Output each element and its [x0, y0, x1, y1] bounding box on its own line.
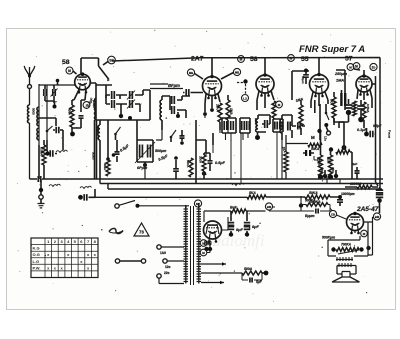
power transformer T1	[184, 206, 202, 285]
svg-text:0.5μF: 0.5μF	[215, 161, 226, 165]
label 2A5-47	[356, 206, 379, 213]
label 1MA V4	[295, 97, 304, 103]
wire dashes V3	[237, 83, 246, 95]
capacitor C24 dark	[303, 150, 314, 156]
tube V6 80	[204, 221, 222, 243]
label right rot	[388, 130, 392, 139]
node dot gang bottom	[143, 162, 147, 167]
capacitor C4 V1k	[73, 116, 84, 128]
svg-text:25K: 25K	[331, 167, 335, 172]
svg-text:2o: 2o	[372, 65, 376, 69]
resistor R19 filter	[231, 209, 246, 213]
svg-text:L2: L2	[243, 96, 247, 100]
phono link	[115, 259, 145, 263]
resistor R10 1M	[299, 100, 303, 135]
svg-text:50KA: 50KA	[309, 191, 318, 195]
wire left tuner top	[39, 84, 74, 86]
svg-text:0.5MA: 0.5MA	[40, 147, 44, 155]
wire V1 cathode drops	[72, 90, 86, 113]
svg-text:M: M	[240, 57, 243, 61]
node dot 80	[204, 247, 208, 251]
label Bak	[230, 206, 238, 210]
wire IF1 bottom	[96, 119, 150, 121]
coil L3 left	[37, 128, 39, 140]
label 1MA V5	[336, 79, 344, 83]
resistor R7 200	[199, 155, 207, 171]
svg-text:25KA: 25KA	[216, 104, 220, 111]
capacitor C6 IF1	[106, 95, 122, 108]
capacitor C17 IF2b	[242, 121, 245, 130]
wire V3 bottom	[257, 100, 274, 119]
node dot tuner junction	[45, 101, 57, 109]
resistor R17 50K rail	[305, 191, 330, 199]
switch S1 left	[46, 126, 53, 132]
resistor R20 hum	[242, 271, 268, 276]
trimmer C8 IF1	[122, 100, 140, 109]
capacitor C31 elec	[376, 187, 383, 213]
coil L8	[280, 119, 282, 133]
resistor R4 50K	[186, 158, 193, 177]
capacitor C25 V5	[339, 99, 353, 128]
node M circ b	[200, 249, 207, 256]
capacitor C29 rail	[78, 189, 95, 201]
resistor R13	[326, 155, 333, 180]
wire V3 plate up	[264, 58, 266, 75]
node G circle V1	[66, 67, 73, 74]
label 80	[204, 241, 212, 248]
svg-text:MB: MB	[235, 70, 239, 74]
node CB circle	[329, 208, 346, 219]
resistor R15 V5	[362, 102, 370, 120]
node M circle V3	[242, 95, 249, 102]
label 05uF c	[215, 161, 226, 165]
wire x196 col	[195, 120, 197, 184]
wire antenna lead	[29, 89, 31, 180]
node M4 circle top 57	[353, 63, 360, 70]
svg-text:0.1μF: 0.1μF	[357, 128, 367, 132]
svg-text:M: M	[355, 64, 358, 68]
triangle 73	[134, 223, 149, 236]
svg-text:BM: BM	[375, 215, 380, 219]
wire right edge col	[376, 60, 381, 189]
node dots V2k	[203, 108, 214, 116]
IF2c cluster	[273, 119, 283, 132]
terminal 220V	[157, 271, 184, 284]
capacitor C1 trimmer	[44, 85, 46, 101]
wire V5 k bot	[364, 98, 372, 128]
label 05uF a	[119, 143, 130, 152]
wire MB to V2	[195, 74, 204, 80]
label BFum	[168, 83, 180, 88]
label 6Pum	[137, 166, 148, 170]
capacitor C3 left	[53, 127, 63, 140]
wire V1 plate up	[81, 58, 109, 79]
hanging dots rails	[320, 162, 360, 179]
wire M to V2	[221, 73, 234, 80]
title FNR Super 7A	[299, 44, 365, 55]
speaker cone	[332, 277, 360, 282]
label handwr 1	[49, 184, 61, 186]
svg-text:BM: BM	[267, 205, 272, 209]
wire V5 cathode	[357, 90, 372, 100]
wire V3 cathode	[257, 91, 274, 102]
capacitor C13	[180, 130, 185, 145]
IF2b cluster frame	[240, 118, 250, 133]
capacitor C22	[282, 115, 292, 131]
resistor R16 5K rail	[247, 191, 266, 199]
label 05uF b	[158, 154, 169, 162]
node M circ a	[200, 240, 207, 247]
capacitor C15 IF2	[224, 121, 227, 130]
capacitor C5 IF1	[106, 91, 120, 99]
capacitor C19 det	[258, 115, 270, 128]
svg-text:2A5-47: 2A5-47	[356, 206, 379, 213]
node M2 circle top	[238, 56, 245, 63]
svg-text:FNR Super 7 A: FNR Super 7 A	[299, 44, 365, 55]
label 55 V4	[301, 56, 309, 63]
capacitor C9 IF1 sec	[170, 96, 190, 104]
svg-text:0000: 0000	[32, 108, 36, 115]
svg-text:500Kμm: 500Kμm	[322, 236, 335, 240]
capacitor C34 out	[301, 205, 330, 214]
wire V2 plate up	[211, 58, 213, 77]
svg-text:1MA: 1MA	[229, 108, 233, 115]
wire heater line 2	[201, 272, 242, 274]
tube V1 58	[75, 72, 91, 93]
svg-text:8μF: 8μF	[352, 162, 357, 166]
resistor R6 V2k2	[226, 95, 233, 120]
switch S3	[170, 130, 176, 142]
wire V1 to SP	[103, 61, 108, 65]
wire col x108	[92, 120, 109, 179]
svg-text:Bμμm: Bμμm	[305, 214, 315, 218]
wire filter right	[246, 210, 266, 212]
label handwr 3	[232, 183, 244, 185]
wire V7 wires	[355, 217, 373, 256]
capacitor C21 V4	[301, 69, 309, 85]
label handwr 2	[80, 186, 92, 188]
wire V5 right	[372, 83, 376, 85]
node M circle V3b	[276, 101, 283, 108]
IF2 cluster frame	[222, 118, 236, 133]
gang capacitor C12	[135, 120, 155, 163]
capacitor C14	[173, 156, 179, 179]
T1 top leads	[186, 203, 199, 208]
coil L9 V5	[353, 101, 357, 116]
node MB circle V2	[187, 69, 194, 76]
wire gang drop	[144, 165, 146, 179]
resistor R2 cathode V1	[70, 105, 74, 127]
wire det col	[196, 133, 213, 153]
node BM circle V7	[373, 213, 380, 220]
svg-text:P.W.: P.W.	[33, 265, 41, 270]
wire tuner mid	[39, 118, 56, 126]
node BM circle	[265, 203, 301, 211]
label 01uF	[357, 128, 367, 132]
node MT circle	[194, 200, 201, 207]
coil L2 left	[37, 107, 39, 126]
wire V4 area cols	[315, 100, 326, 140]
wire V4 cathode	[311, 92, 328, 103]
capacitor C20 det	[204, 153, 213, 171]
label 500KA out	[305, 199, 316, 203]
label 500A	[244, 267, 253, 271]
label 500Kum	[322, 236, 335, 240]
capacitor C2 trimmer	[51, 85, 58, 103]
svg-text:8μF: 8μF	[236, 227, 244, 232]
coil L6	[96, 120, 100, 179]
tube V4 55	[310, 73, 329, 98]
svg-text:1A0: 1A0	[160, 251, 166, 255]
wire R24 link	[286, 143, 308, 145]
coil L4 IF1	[92, 98, 97, 120]
wire rail B	[100, 179, 383, 184]
coil L7 det	[254, 118, 258, 132]
wire IF1 sec top	[162, 96, 170, 100]
capacitor C26 V5 out	[364, 128, 375, 137]
scan speckle noise	[17, 30, 391, 302]
wire gnd stem	[40, 179, 42, 188]
wire V1 grid cap	[73, 71, 77, 74]
node dot IF1	[119, 104, 123, 118]
capacitor C11	[115, 140, 120, 162]
capacitor C35 left	[45, 140, 67, 157]
svg-text:M: M	[68, 69, 71, 73]
svg-text:58: 58	[62, 59, 70, 66]
svg-text:55: 55	[301, 56, 309, 63]
svg-text:200A: 200A	[199, 156, 203, 163]
label Buum	[305, 214, 315, 218]
svg-text:50μm: 50μm	[301, 76, 305, 84]
wire V2 col drop	[205, 114, 228, 133]
pilot lamp squiggle	[109, 228, 123, 233]
wire left bottom	[39, 140, 63, 179]
label 50KA2	[311, 147, 320, 151]
wire heater arrow 1	[201, 262, 226, 266]
trimmer C7 IF1	[120, 91, 143, 100]
antenna coil L1	[27, 105, 29, 123]
wire 80 bottom	[207, 217, 229, 253]
svg-text:500KA: 500KA	[305, 199, 316, 203]
svg-text:2A7: 2A7	[191, 56, 204, 63]
wire coil L5 drop	[156, 130, 162, 140]
capacitor C10 IF1 sec	[170, 100, 186, 114]
watermark	[206, 231, 265, 250]
resistor R21 grid	[301, 203, 330, 207]
svg-text:1MA: 1MA	[336, 79, 344, 83]
svg-text:12o: 12o	[324, 136, 328, 141]
wire IF2 drops	[226, 133, 249, 140]
node SP circle on top bus	[108, 56, 116, 64]
node dot V1k2	[70, 127, 75, 136]
label 2A7 V2	[191, 56, 204, 63]
capacitor C36 mica stack	[340, 90, 346, 110]
wire IF1 top lead	[90, 83, 112, 85]
switch S2	[114, 127, 120, 140]
wire V2 cathode drops	[205, 94, 220, 104]
capacitor C28 rail left	[30, 176, 44, 182]
ground	[38, 199, 45, 208]
wire IF1 frame	[96, 85, 106, 120]
svg-text:700KA: 700KA	[341, 243, 352, 247]
label 500um	[155, 149, 167, 153]
resistor R14	[334, 118, 352, 179]
resistor R12	[316, 155, 323, 180]
svg-text:12o: 12o	[165, 265, 171, 269]
tube V3 58	[256, 73, 274, 97]
svg-text:CB: CB	[331, 212, 335, 216]
node dot gnd	[39, 188, 43, 192]
wire rail C	[108, 184, 382, 190]
wire top plate bus	[112, 58, 380, 62]
node circle 2 V1	[83, 102, 90, 109]
svg-text:5KA: 5KA	[249, 191, 256, 195]
node M3 circle top	[288, 55, 295, 62]
svg-text:500μm: 500μm	[155, 149, 167, 153]
capacitor C18 IF2b	[247, 121, 250, 130]
resistor R23 left	[40, 140, 47, 179]
svg-text:250μm: 250μm	[334, 72, 348, 76]
wire V4 plate up	[318, 58, 320, 75]
resistor R8 V3	[272, 101, 276, 118]
label 57 V5	[345, 56, 353, 63]
wire V5 top	[354, 69, 364, 76]
svg-text:22o: 22o	[164, 271, 170, 275]
resistor R18 10000	[345, 182, 378, 189]
svg-text:10000μm: 10000μm	[341, 192, 355, 196]
svg-text:73: 73	[139, 230, 144, 235]
svg-text:L.G: L.G	[33, 259, 40, 264]
label 10000um	[341, 192, 355, 196]
wire heater arrow 3	[201, 281, 224, 285]
tube V7 2A5	[347, 212, 364, 235]
svg-text:K.G: K.G	[33, 246, 40, 251]
hum cap branch	[242, 273, 263, 284]
label 58 V1	[62, 59, 70, 66]
svg-text:0.5μF: 0.5μF	[373, 124, 382, 128]
svg-text:M: M	[290, 56, 293, 60]
svg-text:6Pμm: 6Pμm	[137, 166, 148, 170]
svg-text:SP: SP	[109, 58, 114, 62]
coil L5 IF1 sec	[160, 100, 162, 120]
svg-text:25K: 25K	[320, 167, 324, 172]
label R2 450A	[68, 108, 72, 115]
node dot x320	[317, 129, 321, 133]
node dot c x117	[112, 153, 116, 157]
switch S5 mains	[115, 201, 189, 209]
output transformer T2	[336, 257, 353, 267]
node dot x331	[329, 147, 333, 151]
wire IF1 right	[140, 90, 150, 120]
tube V2 2A7	[203, 75, 222, 100]
bold M mark	[311, 135, 315, 140]
svg-text:58: 58	[250, 56, 258, 63]
capacitor C30	[337, 195, 343, 206]
node 2o circle top right	[370, 63, 377, 70]
wire left vertical	[38, 84, 40, 145]
switch S4 V4	[324, 112, 330, 135]
node dot det2	[202, 171, 206, 179]
antenna terminal	[28, 85, 32, 89]
svg-text:00000: 00000	[92, 100, 96, 108]
label 250um	[334, 72, 348, 76]
label 120 rot	[324, 136, 328, 141]
node dot IF1 sec	[176, 112, 180, 118]
resistor R24 1KA	[282, 135, 289, 179]
svg-text:50KA: 50KA	[311, 147, 320, 151]
terminal 120V	[163, 259, 184, 269]
svg-text:MB: MB	[189, 71, 193, 75]
wire V2 left cap	[183, 89, 203, 96]
resistor R3 400	[103, 157, 110, 176]
svg-text:57: 57	[345, 56, 353, 63]
tube V5 57	[356, 74, 372, 96]
antenna	[24, 66, 35, 84]
capacitor C16 IF2	[231, 121, 234, 130]
node dot x130	[128, 116, 132, 120]
wire rail A	[43, 178, 383, 180]
svg-text:400A: 400A	[103, 163, 107, 170]
wire rail D segs	[89, 196, 341, 198]
label 03uF	[86, 97, 95, 108]
terminal 110V	[157, 245, 184, 255]
label 700KA tone	[341, 243, 352, 247]
svg-text:MT: MT	[196, 202, 200, 206]
ground terminal circle	[39, 192, 43, 199]
node M circle V2b	[233, 68, 240, 75]
svg-text:0.5MA: 0.5MA	[366, 104, 370, 113]
label 58 V3	[250, 56, 258, 63]
node dot left tuner	[56, 79, 60, 83]
resistor R9 5K	[330, 92, 337, 125]
svg-text:5KA: 5KA	[330, 99, 334, 106]
svg-text:BFμm: BFμm	[168, 83, 180, 88]
resistor R5 V2k	[216, 103, 223, 122]
speaker neck	[342, 272, 350, 278]
svg-text:O.G: O.G	[33, 252, 40, 257]
speaker frame	[337, 266, 356, 275]
node dot det	[255, 132, 266, 140]
svg-text:M: M	[311, 135, 315, 140]
wire V1 left grid	[58, 81, 75, 86]
node M circle V5	[347, 64, 354, 71]
capacitor C33 8uF	[244, 211, 260, 237]
wire V2 k bottom	[205, 103, 228, 130]
label coil left	[32, 108, 36, 115]
node dot V3 top	[243, 79, 247, 83]
label 05uF d	[373, 124, 382, 128]
wire R12 tops	[321, 131, 331, 155]
svg-text:00000: 00000	[92, 152, 96, 160]
wire V4 k bottoms	[311, 100, 328, 108]
wire bus drop a	[213, 132, 277, 184]
tone pot R22	[331, 247, 363, 254]
wire left col x47	[46, 85, 48, 140]
wire IF1 sec bottom	[162, 110, 186, 130]
band selection table	[31, 238, 98, 278]
svg-text:50KA: 50KA	[186, 160, 190, 167]
svg-text:00000: 00000	[96, 126, 100, 134]
svg-text:Focus: Focus	[388, 130, 392, 139]
wire 80 plates	[206, 224, 219, 234]
node M circle V7b	[361, 230, 368, 237]
wire V4 box	[292, 70, 345, 100]
wire out col	[314, 156, 320, 160]
tone box	[328, 236, 368, 256]
node dot out1	[299, 196, 303, 211]
wire misc col	[205, 153, 207, 155]
wire misc drops2	[282, 140, 340, 184]
